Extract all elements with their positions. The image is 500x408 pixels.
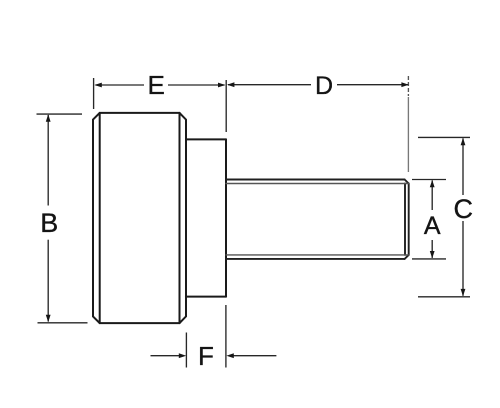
arrowhead A top [430,180,435,187]
arrowhead B bottom [46,315,51,322]
svg-text:E: E [148,70,165,100]
dim D line right part [337,84,408,86]
dim C line bottom part [462,221,464,296]
arrowhead D right [401,82,408,87]
shaft thread minor diameter bottom line [226,254,409,256]
dim A top extension line [412,179,446,181]
shoulder bottom edge [186,296,226,298]
dim B bottom extension line [38,322,88,324]
dim E/D shared extension line [225,80,227,132]
arrowhead D left [227,82,234,87]
dim E line right part [168,84,225,86]
dim F left arrow line [151,355,180,357]
dim D line left part [228,84,311,86]
dim E line left part [96,84,145,86]
arrowhead E right [218,83,225,88]
shaft end chamfer diagonal top [405,180,409,184]
dim F left extension line [185,333,187,368]
head right chamfer tangent line [179,113,181,323]
arrowhead B top [46,114,51,121]
arrowhead E left [94,83,101,88]
dim A line top part [431,180,433,210]
arrowhead C top [461,138,466,145]
shaft thread minor diameter top line [226,183,409,185]
shaft thread major diameter bottom line [226,258,405,260]
head left chamfer tangent line [99,113,101,323]
dim F right arrow line [233,355,276,357]
svg-text:F: F [198,341,214,371]
shaft end face [408,184,410,255]
dim B line top part [47,115,49,206]
svg-text:D: D [315,72,333,100]
arrowhead F right (pointing left) [226,353,233,358]
dim C top extension line [418,136,470,138]
shoulder top edge [186,138,226,140]
dim B top extension line [37,113,83,115]
dim C bottom extension line [418,296,470,298]
arrowhead C bottom [461,289,466,296]
svg-text:C: C [453,194,473,224]
dim C line top part [462,138,464,195]
arrowhead F left (pointing right) [179,353,186,358]
arrowhead A bottom [430,251,435,258]
dim A bottom extension line [412,258,446,260]
svg-text:B: B [40,208,58,238]
dim F right extension line [225,305,227,368]
shaft chamfer tangent vertical [404,184,406,255]
dim B line bottom part [47,240,49,322]
shaft end chamfer diagonal bottom [405,255,409,259]
dim A line bottom part [431,240,433,258]
shoulder right edge [225,139,227,296]
shaft thread major diameter top line [226,179,405,181]
dim E left extension line [93,78,95,109]
screw head outline (chamfered octagon) [93,113,186,323]
svg-text:A: A [424,212,441,240]
dim D right extension line [407,76,409,96]
